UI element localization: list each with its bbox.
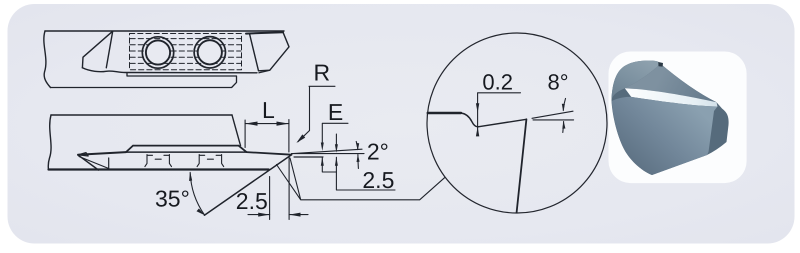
svg-text:2.5: 2.5 [362,167,394,193]
svg-text:2°: 2° [367,138,389,164]
svg-text:L: L [262,97,275,123]
svg-text:2.5: 2.5 [236,188,268,214]
svg-text:35°: 35° [155,186,190,212]
svg-text:0.2: 0.2 [482,70,513,95]
svg-text:E: E [328,99,343,125]
svg-text:8°: 8° [548,70,569,95]
svg-text:R: R [314,60,331,86]
